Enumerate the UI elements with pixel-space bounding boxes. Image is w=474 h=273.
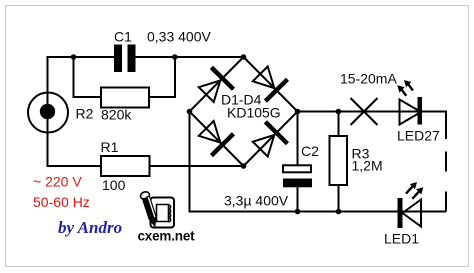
svg-text:1,2M: 1,2M: [352, 158, 383, 174]
wire dashed chain segment 1: [445, 152, 447, 172]
junction node bridge bottom vertex: [241, 163, 247, 169]
svg-text:C1: C1: [114, 29, 132, 45]
svg-text:R2: R2: [76, 106, 94, 122]
wire bottom input horizontal: [47, 165, 102, 167]
diode D3 bottom-left: [195, 117, 235, 157]
capacitor C2: [283, 112, 319, 212]
junction node C1-R2 left: [71, 54, 77, 60]
AC socket: [28, 93, 68, 133]
wire R2 left branch: [74, 57, 102, 97]
svg-text:cxem.net: cxem.net: [138, 229, 196, 244]
wire dashed chain segment 2: [445, 192, 447, 212]
LED LED27: [397, 80, 440, 144]
wire top rail left segment: [48, 56, 115, 58]
wire R2 right branch: [149, 57, 175, 97]
wire left vertex to bottom rail: [190, 112, 447, 212]
resistor R3: [330, 112, 383, 212]
svg-text:50-60 Hz: 50-60 Hz: [33, 194, 90, 210]
diode D4 bottom-right: [249, 120, 289, 160]
diode D2 top-right: [249, 63, 289, 103]
junction node R3 top: [336, 109, 342, 115]
junction node C1-R2 right: [172, 54, 178, 60]
svg-text:C2: C2: [301, 143, 319, 159]
svg-text:15-20mA: 15-20mA: [340, 71, 397, 87]
svg-text:LED1: LED1: [384, 231, 419, 247]
svg-text:KD105G: KD105G: [227, 105, 281, 121]
svg-text:LED27: LED27: [397, 128, 440, 144]
junction node R3 bottom: [336, 209, 342, 215]
bridge edge top-left: [190, 57, 244, 112]
LED LED1: [384, 182, 423, 247]
svg-text:100: 100: [102, 177, 126, 193]
diode D1 top-left: [195, 66, 235, 106]
wire left input vertical: [47, 56, 49, 166]
svg-text:by Andro: by Andro: [58, 218, 122, 237]
svg-text:0,33 400V: 0,33 400V: [147, 29, 211, 45]
svg-text:820k: 820k: [101, 107, 132, 123]
junction node C2 bottom: [295, 209, 301, 215]
junction node bridge top vertex: [241, 54, 247, 60]
wire R1 to bridge bottom vertex: [150, 165, 244, 167]
lamp X symbol: [351, 98, 378, 125]
junction node bridge right vertex: [295, 109, 301, 115]
wire top rail right segment: [136, 56, 244, 58]
svg-text:~ 220 V: ~ 220 V: [33, 174, 82, 190]
bridge edge bottom-left: [190, 112, 244, 167]
resistor R2: [76, 88, 150, 123]
capacitor C1: [114, 29, 136, 73]
resistor R1: [101, 139, 150, 193]
svg-text:R1: R1: [101, 139, 119, 155]
junction node bridge left vertex: [187, 109, 193, 115]
cxem.net logo: [138, 191, 196, 244]
svg-text:3,3µ 400V: 3,3µ 400V: [224, 193, 289, 209]
bridge edge bottom-right: [244, 112, 298, 167]
wire DC plus rail with corner: [298, 112, 447, 140]
bridge edge top-right: [244, 57, 298, 112]
